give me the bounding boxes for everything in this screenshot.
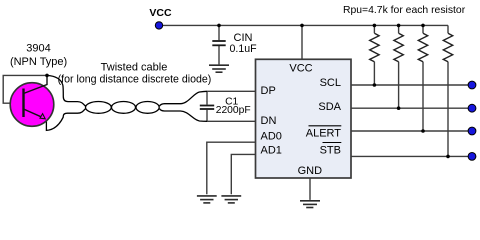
svg-text:(NPN Type): (NPN Type) bbox=[10, 56, 67, 68]
svg-text:SDA: SDA bbox=[318, 101, 341, 113]
svg-text:AD0: AD0 bbox=[261, 130, 282, 142]
svg-text:(for long distance discrete di: (for long distance discrete diode) bbox=[58, 73, 212, 85]
svg-text:Rpu=4.7k for each resistor: Rpu=4.7k for each resistor bbox=[343, 5, 466, 16]
svg-text:AD1: AD1 bbox=[261, 144, 282, 156]
svg-text:SCL: SCL bbox=[320, 77, 341, 89]
svg-text:VCC: VCC bbox=[149, 7, 172, 19]
svg-text:Twisted cable: Twisted cable bbox=[101, 62, 168, 74]
svg-text:2200pF: 2200pF bbox=[216, 105, 251, 116]
svg-text:3904: 3904 bbox=[26, 42, 50, 54]
svg-text:STB: STB bbox=[320, 144, 341, 156]
svg-text:DP: DP bbox=[261, 85, 276, 97]
svg-text:GND: GND bbox=[298, 165, 323, 177]
svg-text:0.1uF: 0.1uF bbox=[230, 43, 258, 55]
svg-text:ALERT: ALERT bbox=[306, 127, 342, 139]
svg-text:VCC: VCC bbox=[289, 62, 312, 74]
svg-text:DN: DN bbox=[261, 115, 277, 127]
